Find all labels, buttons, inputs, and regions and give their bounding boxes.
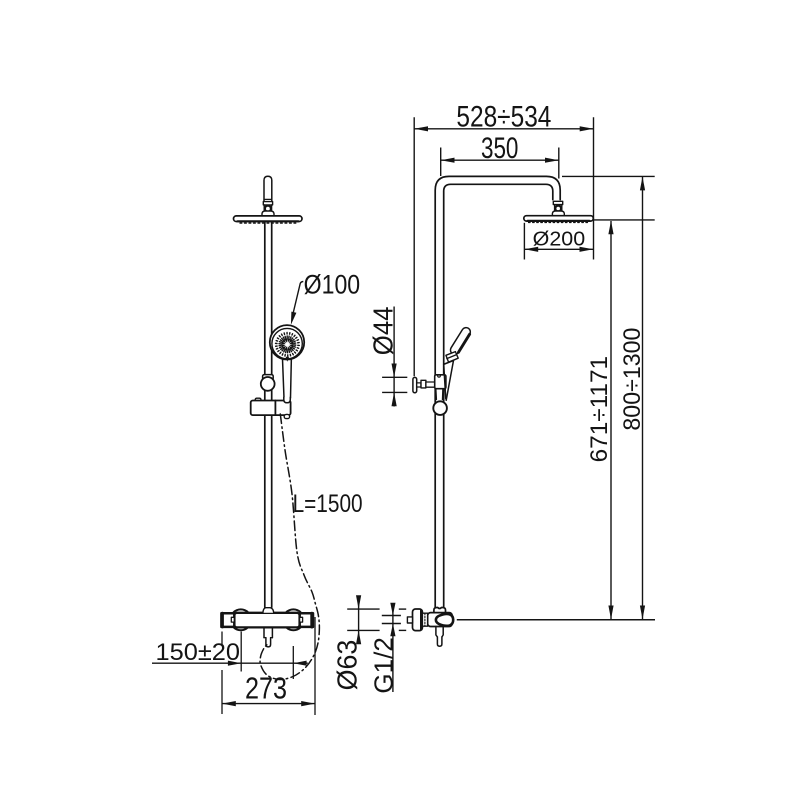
dimension 150±20 xyxy=(152,662,308,664)
floor baseline xyxy=(457,619,655,621)
svg-text:671÷1171: 671÷1171 xyxy=(586,356,613,463)
svg-text:L=1500: L=1500 xyxy=(293,490,363,518)
bracket divider front xyxy=(274,401,276,416)
top supply tube front xyxy=(264,176,272,201)
mixer inlet flare front xyxy=(263,608,274,613)
valve lower stub side xyxy=(436,627,443,638)
svg-text:528÷534: 528÷534 xyxy=(456,100,551,133)
slider knob T-bar side xyxy=(413,377,417,392)
connector band front xyxy=(263,202,272,205)
valve ball side xyxy=(436,614,453,626)
svg-text:800÷1300: 800÷1300 xyxy=(619,328,646,431)
connector ball joint front xyxy=(263,205,265,211)
svg-text:Ø200: Ø200 xyxy=(533,229,586,251)
knurled connector side xyxy=(422,613,427,626)
spray nozzles side head xyxy=(529,222,589,224)
hand shower ball side xyxy=(433,401,447,415)
connector flare base front xyxy=(262,211,274,216)
svg-text:150±20: 150±20 xyxy=(156,639,241,666)
svg-text:350: 350 xyxy=(481,132,519,165)
bracket bump front xyxy=(255,398,261,401)
dimension 350 xyxy=(441,159,559,161)
connector ball joint side xyxy=(554,205,556,211)
valve collar side xyxy=(434,608,446,613)
valve body side xyxy=(428,613,453,627)
hand shower handle side xyxy=(449,326,472,356)
hand shower head front outer xyxy=(270,325,304,359)
shower hose dash-dot L=1500 xyxy=(260,414,319,680)
leader Ø100 xyxy=(293,282,303,313)
slider knob stem side xyxy=(417,383,421,387)
hand shower spray face xyxy=(275,332,301,358)
hand shower neck side xyxy=(446,352,458,363)
hand shower center disc xyxy=(281,338,294,351)
dimension 800÷1300 xyxy=(562,175,655,177)
wall nipple side xyxy=(407,617,412,623)
mixer left knob front xyxy=(230,609,251,630)
hand shower bottom wedge xyxy=(286,357,290,362)
slider bracket side xyxy=(435,375,446,389)
spray nozzles front head xyxy=(240,222,297,224)
connector flare side xyxy=(552,211,564,216)
dimension 273 xyxy=(222,703,315,705)
dimension G1/2 xyxy=(382,615,401,617)
hand shower cone side xyxy=(444,364,446,399)
wall flange side xyxy=(413,609,423,631)
svg-text:273: 273 xyxy=(245,670,287,705)
dimension Ø63 xyxy=(347,608,379,610)
pipe bend inner xyxy=(444,184,553,607)
mixer right cap front xyxy=(300,613,313,627)
svg-text:G1/2: G1/2 xyxy=(369,637,399,693)
svg-text:Ø63: Ø63 xyxy=(331,640,362,691)
slider collar front xyxy=(263,375,274,380)
mixer body front xyxy=(234,613,299,628)
mixer left cap front xyxy=(221,613,234,627)
overhead shower head side xyxy=(524,216,594,221)
bracket block front xyxy=(251,401,291,416)
hand shower hose front xyxy=(282,357,284,399)
mixer right knob front xyxy=(283,609,304,630)
dimension 671÷1171 xyxy=(594,219,655,221)
wall extension line xyxy=(413,117,415,376)
svg-text:Ø44: Ø44 xyxy=(367,307,398,356)
dimension 528÷534 xyxy=(414,128,593,130)
hand shower head front rim xyxy=(272,328,302,358)
overhead shower head front xyxy=(234,216,303,222)
riser pipe front xyxy=(264,223,266,608)
mixer outlet front xyxy=(263,627,265,637)
bracket tab front xyxy=(284,414,289,418)
slider ball front xyxy=(261,377,275,391)
slider neck side xyxy=(436,389,443,400)
hose ferrule front xyxy=(284,397,291,403)
pipe bend outer xyxy=(435,176,560,607)
connector band side xyxy=(553,201,562,204)
dimension Ø200 xyxy=(523,223,525,260)
dimension Ø44 xyxy=(393,307,395,393)
svg-text:Ø100: Ø100 xyxy=(304,270,361,300)
